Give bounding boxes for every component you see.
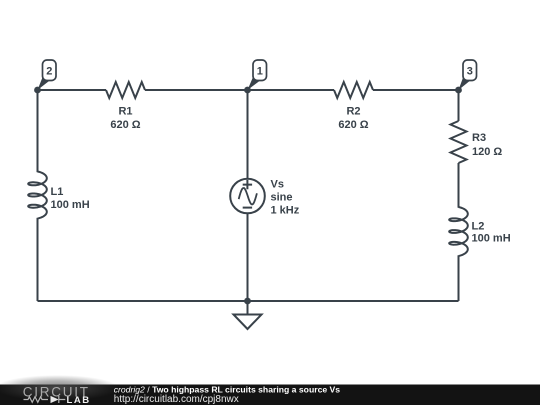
wire right vertical lower (L2 to bottom) <box>458 255 460 301</box>
inductor L1 <box>28 172 47 219</box>
wire R3 to L2 <box>458 163 460 208</box>
ground stub wire <box>247 301 249 315</box>
svg-text:620 Ω: 620 Ω <box>338 119 368 131</box>
node 3 callout <box>459 60 477 90</box>
svg-text:100 mH: 100 mH <box>472 233 511 245</box>
junction dot bottom (ground node) <box>244 298 251 305</box>
svg-text:1: 1 <box>257 65 263 77</box>
svg-text:R2: R2 <box>346 106 360 118</box>
inductor L2 <box>449 207 468 256</box>
wire right vertical upper (node3 to R3) <box>458 90 460 121</box>
svg-text:R3: R3 <box>472 132 486 144</box>
resistor R1 <box>106 82 145 98</box>
wire R1 to node1 <box>145 89 248 91</box>
wire middle vertical lower (Vs to bottom) <box>247 213 249 301</box>
wire left vertical upper (node2 to L1) <box>37 90 39 172</box>
wire R2 to node3 <box>373 89 459 91</box>
svg-text:120 Ω: 120 Ω <box>472 146 502 158</box>
resistor R2 <box>334 82 373 98</box>
svg-text:R1: R1 <box>118 106 132 118</box>
node 1 callout <box>248 60 267 90</box>
svg-text:L1: L1 <box>51 186 64 198</box>
svg-text:1 kHz: 1 kHz <box>271 205 300 217</box>
svg-text:100 mH: 100 mH <box>51 199 90 211</box>
node 3 dot <box>455 87 462 94</box>
wire left vertical lower (L1 to bottom) <box>37 218 39 301</box>
resistor R3 <box>451 121 467 163</box>
wire middle vertical upper (node1 to Vs) <box>247 90 249 179</box>
svg-text:620 Ω: 620 Ω <box>110 119 140 131</box>
svg-text:Vs: Vs <box>271 179 284 191</box>
wire top-left segment node2 to R1 <box>38 89 107 91</box>
svg-text:http://circuitlab.com/cpj8nwx: http://circuitlab.com/cpj8nwx <box>114 394 239 405</box>
CircuitLab logo <box>23 384 91 405</box>
wire bottom horizontal <box>38 300 459 302</box>
svg-text:2: 2 <box>46 65 52 77</box>
svg-text:sine: sine <box>271 192 293 204</box>
wire node1 to R2 <box>248 89 335 91</box>
node 2 callout <box>38 60 57 90</box>
voltage source Vs <box>230 179 265 214</box>
svg-text:3: 3 <box>467 65 473 77</box>
svg-text:LAB: LAB <box>67 395 91 405</box>
svg-text:crodrig2 / Two highpass RL cir: crodrig2 / Two highpass RL circuits shar… <box>114 384 341 394</box>
node 2 dot <box>34 87 41 94</box>
ground <box>234 315 262 330</box>
node 1 dot <box>244 87 251 94</box>
svg-text:L2: L2 <box>472 221 485 233</box>
